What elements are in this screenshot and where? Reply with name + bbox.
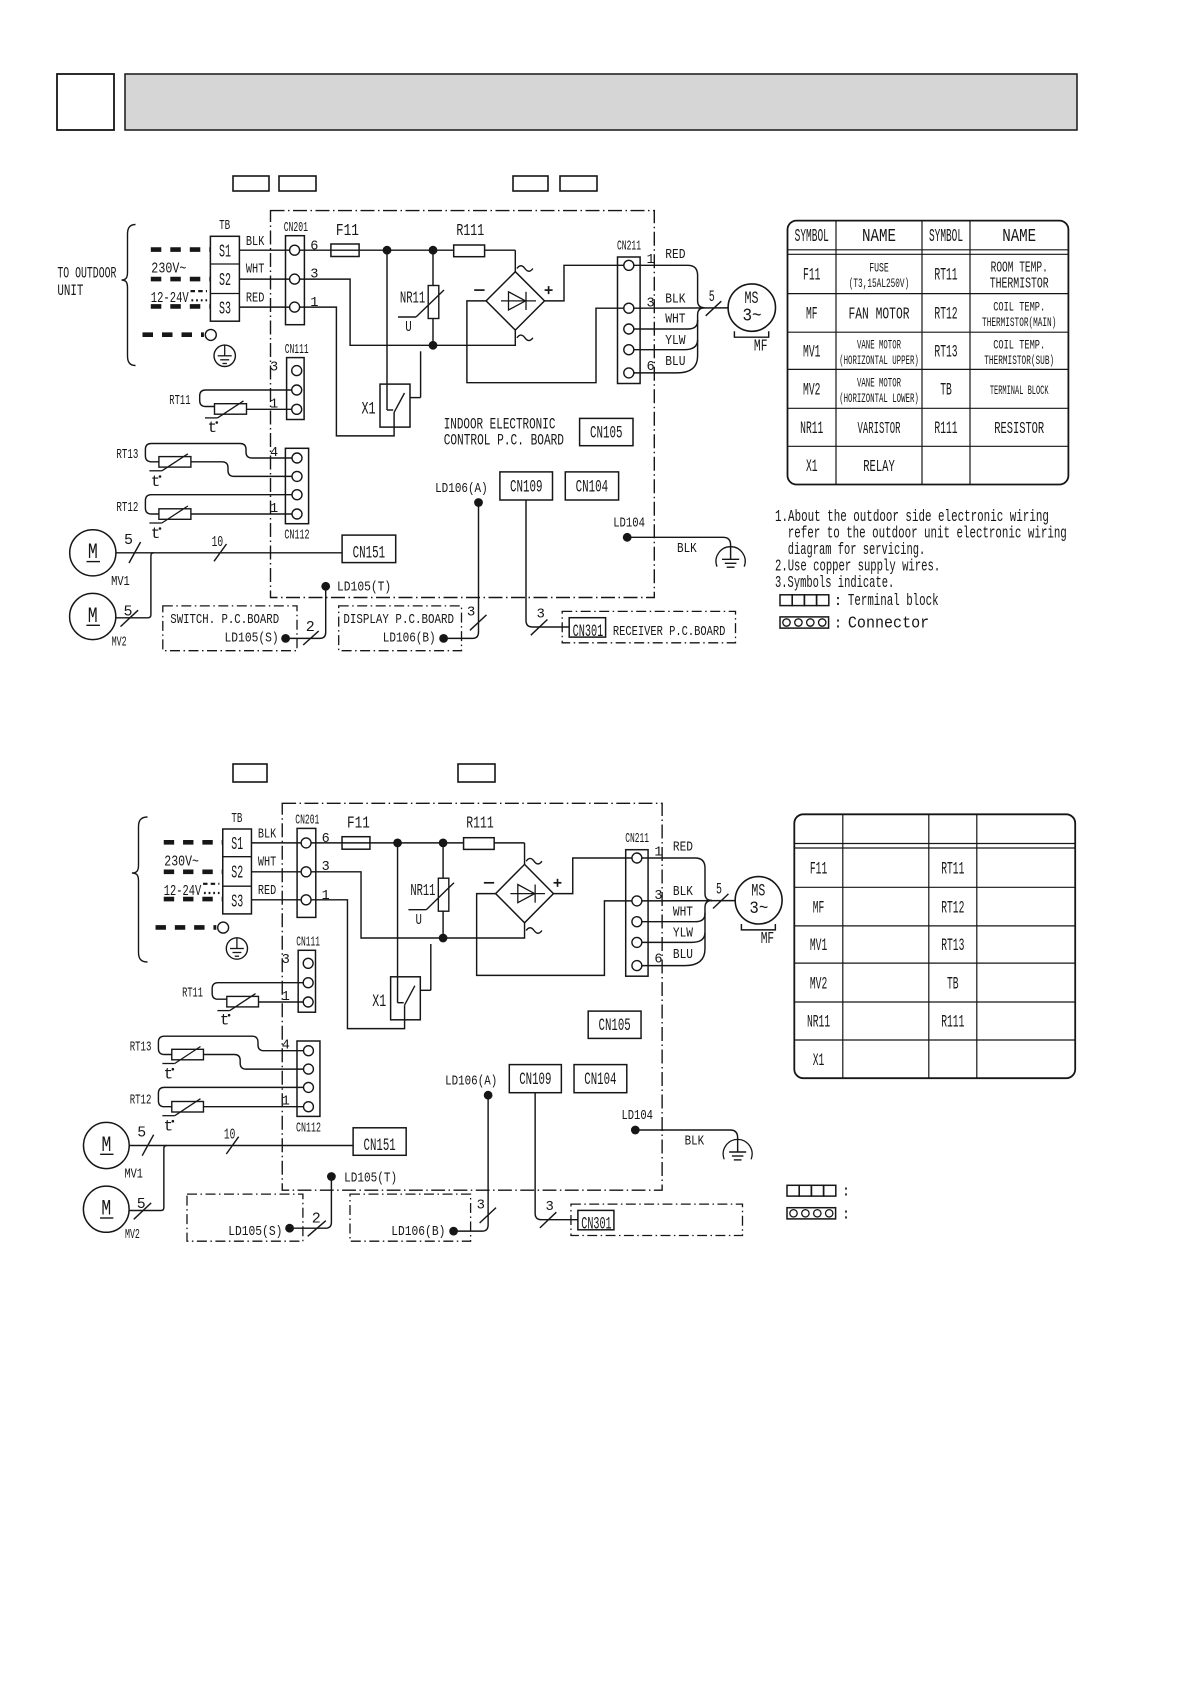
svg-text:RESISTOR: RESISTOR xyxy=(994,420,1044,439)
svg-text:FAN MOTOR: FAN MOTOR xyxy=(849,306,910,325)
svg-text:RT13: RT13 xyxy=(934,343,957,363)
svg-text:NR11: NR11 xyxy=(807,1013,830,1033)
svg-text::: : xyxy=(842,1184,851,1201)
svg-text:LD105(S): LD105(S) xyxy=(228,1225,282,1240)
svg-text:3.Symbols indicate.: 3.Symbols indicate. xyxy=(775,574,894,593)
svg-text:Terminal block: Terminal block xyxy=(848,592,939,611)
svg-text::: : xyxy=(834,593,843,610)
svg-text:COIL TEMP.: COIL TEMP. xyxy=(993,299,1045,314)
svg-text:R111: R111 xyxy=(934,419,957,439)
svg-text:MV2: MV2 xyxy=(803,381,820,401)
svg-text:RELAY: RELAY xyxy=(863,458,895,477)
svg-text:(HORIZONTAL LOWER): (HORIZONTAL LOWER) xyxy=(839,391,919,406)
svg-text:THERMISTOR: THERMISTOR xyxy=(990,276,1049,292)
svg-text:UNIT: UNIT xyxy=(57,282,83,300)
svg-text:RT12: RT12 xyxy=(941,898,964,918)
svg-text::: : xyxy=(842,1206,851,1223)
svg-text:ROOM TEMP.: ROOM TEMP. xyxy=(991,260,1048,276)
svg-text:THERMISTOR(SUB): THERMISTOR(SUB) xyxy=(984,353,1054,368)
svg-text:LD105(T): LD105(T) xyxy=(344,1172,397,1187)
svg-text:LD105(T): LD105(T) xyxy=(337,581,391,596)
svg-text:RT13: RT13 xyxy=(941,936,964,956)
svg-text:COIL TEMP.: COIL TEMP. xyxy=(993,337,1045,352)
svg-text:(T3,15AL250V): (T3,15AL250V) xyxy=(849,276,910,291)
svg-text:2: 2 xyxy=(306,619,315,636)
svg-text:NAME: NAME xyxy=(1002,226,1036,247)
svg-text:RT12: RT12 xyxy=(934,305,957,325)
svg-text:2: 2 xyxy=(312,1211,321,1228)
svg-text:VANE MOTOR: VANE MOTOR xyxy=(857,337,901,352)
svg-text:THERMISTOR(MAIN): THERMISTOR(MAIN) xyxy=(982,315,1056,330)
svg-text:X1: X1 xyxy=(806,457,818,477)
svg-text:F11: F11 xyxy=(803,266,820,286)
svg-text:TB: TB xyxy=(947,974,959,994)
svg-text:LD106(B): LD106(B) xyxy=(383,632,436,647)
svg-text:MF: MF xyxy=(813,898,825,918)
svg-text:TO OUTDOOR: TO OUTDOOR xyxy=(57,265,116,283)
svg-text:DISPLAY P.C.BOARD: DISPLAY P.C.BOARD xyxy=(343,613,454,628)
svg-text:TB: TB xyxy=(940,381,952,401)
svg-text:LD106(B): LD106(B) xyxy=(391,1225,445,1240)
svg-text:X1: X1 xyxy=(813,1051,825,1071)
svg-text:MV2: MV2 xyxy=(810,974,827,994)
svg-text:MV1: MV1 xyxy=(803,343,820,363)
svg-text:MV1: MV1 xyxy=(810,936,827,956)
svg-text:CONTROL P.C. BOARD: CONTROL P.C. BOARD xyxy=(444,432,564,450)
svg-text:SYMBOL: SYMBOL xyxy=(929,226,963,247)
svg-text:SYMBOL: SYMBOL xyxy=(795,226,829,247)
svg-text:RT11: RT11 xyxy=(934,266,957,286)
svg-text:VANE MOTOR: VANE MOTOR xyxy=(857,375,901,390)
svg-text:TERMINAL BLOCK: TERMINAL BLOCK xyxy=(990,383,1049,398)
svg-text:R111: R111 xyxy=(941,1013,964,1033)
svg-text:NR11: NR11 xyxy=(800,419,823,439)
svg-text:F11: F11 xyxy=(810,859,827,879)
svg-text:RT11: RT11 xyxy=(941,859,964,879)
svg-text:FUSE: FUSE xyxy=(869,260,889,275)
svg-text:NAME: NAME xyxy=(862,226,896,247)
svg-text:RECEIVER P.C.BOARD: RECEIVER P.C.BOARD xyxy=(613,625,726,640)
svg-text:(HORIZONTAL UPPER): (HORIZONTAL UPPER) xyxy=(839,353,919,368)
svg-text:LD105(S): LD105(S) xyxy=(225,632,279,647)
svg-text:SWITCH. P.C.BOARD: SWITCH. P.C.BOARD xyxy=(170,613,279,628)
svg-text:MF: MF xyxy=(806,305,818,325)
svg-text:Connector: Connector xyxy=(848,615,929,634)
svg-text::: : xyxy=(834,616,843,633)
svg-text:VARISTOR: VARISTOR xyxy=(858,420,901,439)
